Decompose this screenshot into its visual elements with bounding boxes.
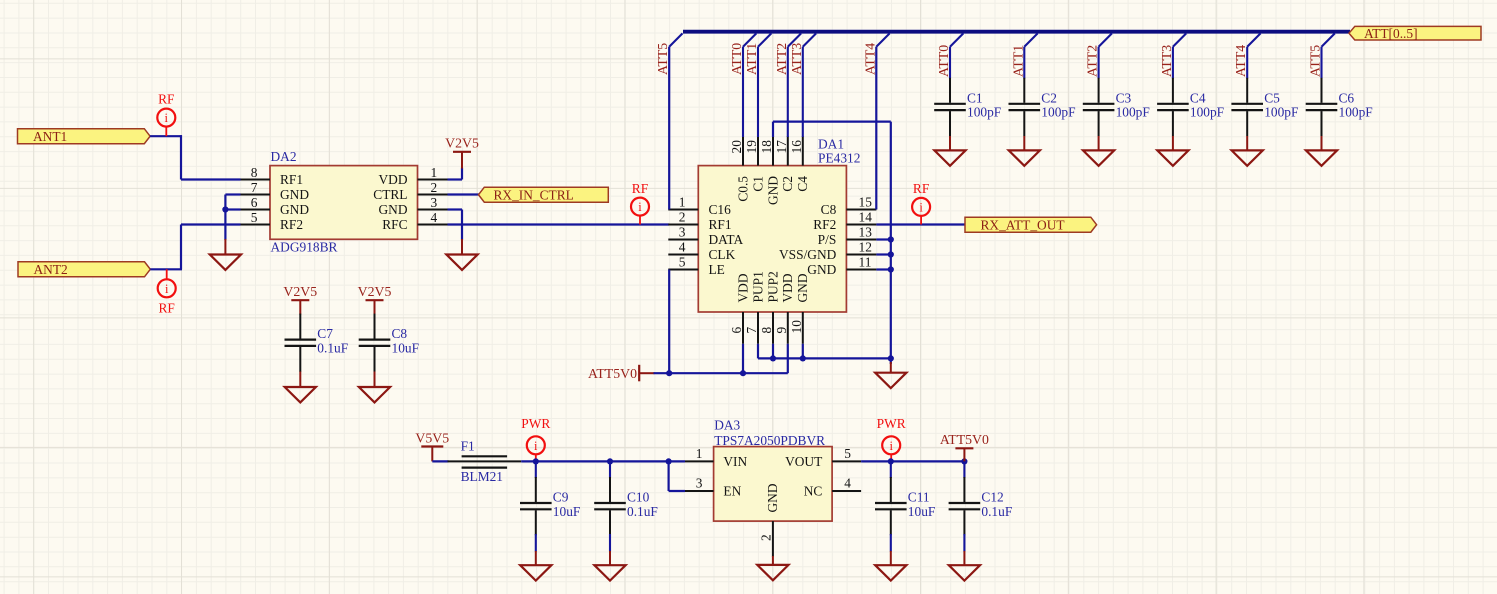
DA1 pin 2 RF1 [668, 224, 698, 226]
power symbol V5V5 (V5V5) [415, 430, 449, 461]
capacitor C11 10uF [875, 477, 935, 535]
DA1 pin 13 P/S [846, 239, 876, 241]
svg-text:C12: C12 [981, 490, 1003, 505]
capacitor C8 10uF [359, 314, 419, 372]
port ANT1 (ANT1) [18, 129, 151, 144]
svg-text:BLM21: BLM21 [461, 469, 503, 484]
bus entry ATT3 at x=1172.9 [1173, 33, 1186, 46]
power symbol V2V5 (DA2 VDD) [445, 136, 479, 169]
svg-text:C1: C1 [750, 176, 765, 192]
ground GND C2 [1009, 150, 1040, 165]
svg-text:i: i [534, 439, 538, 453]
svg-text:PE4312: PE4312 [818, 151, 860, 166]
wire DA2 CTRL to RX_IN_CTRL [448, 193, 480, 195]
svg-text:2: 2 [431, 180, 438, 195]
svg-text:4: 4 [431, 210, 438, 225]
DA1 pin 16 C4 [802, 136, 804, 165]
DA1 pin 19 C1 [757, 136, 759, 165]
svg-text:16: 16 [789, 140, 804, 154]
DA1 pin 14 RF2 [846, 224, 876, 226]
ground GND C12 [949, 565, 980, 580]
svg-text:DATA: DATA [709, 232, 744, 247]
svg-text:VIN: VIN [723, 454, 747, 469]
svg-text:7: 7 [744, 327, 759, 334]
DA3 pin 1 VIN [685, 460, 714, 462]
junction C9 [533, 458, 539, 464]
bus entry ATT2 at x=787.8 [788, 33, 801, 46]
wire DA2 GND pin3 to ground [448, 208, 463, 210]
svg-text:100pF: 100pF [1041, 105, 1075, 120]
svg-text:EN: EN [723, 484, 741, 499]
junction C10 [607, 458, 613, 464]
port RX_ATT_OUT (RX_ATT_OUT) [965, 217, 1097, 232]
svg-text:2: 2 [679, 210, 686, 225]
junction pin10 [800, 355, 806, 361]
svg-text:5: 5 [679, 255, 686, 270]
bus entry ATT1 at x=1024.3 [1024, 33, 1037, 46]
svg-text:ATT4: ATT4 [1233, 45, 1248, 77]
DA3 pin 2 GND [772, 521, 774, 557]
svg-text:14: 14 [859, 210, 873, 225]
svg-text:ATT3: ATT3 [1159, 45, 1174, 77]
capacitor C10 0.1uF [594, 477, 658, 535]
svg-text:V2V5: V2V5 [358, 284, 392, 299]
svg-text:ATT5V0: ATT5V0 [588, 366, 637, 381]
svg-text:ATT5: ATT5 [1308, 45, 1323, 77]
probe RF (probe RF DA1 in) [631, 181, 649, 225]
svg-text:i: i [165, 282, 169, 296]
wire ATT1→pin19 [757, 47, 759, 137]
wire ANT1 to DA2.RF1 [150, 135, 182, 137]
svg-text:ATT0: ATT0 [936, 45, 951, 77]
svg-text:100pF: 100pF [1264, 105, 1298, 120]
IC DA2 ADG918BR [241, 149, 448, 254]
wire C7 to ground [299, 372, 301, 389]
svg-text:i: i [638, 200, 642, 214]
svg-text:5: 5 [251, 210, 258, 225]
DA1 pin 9 VDD [787, 312, 789, 344]
svg-text:1: 1 [679, 195, 686, 210]
DA3 pin 4 NC [832, 490, 861, 492]
port RX_IN_CTRL (RX_IN_CTRL) [479, 187, 609, 202]
svg-text:20: 20 [729, 140, 744, 154]
svg-text:8: 8 [251, 165, 258, 180]
svg-text:NC: NC [804, 484, 823, 499]
DA2 pin 4 RFC [418, 224, 448, 226]
svg-text:RX_IN_CTRL: RX_IN_CTRL [494, 187, 574, 202]
svg-text:GND: GND [807, 262, 836, 277]
ground GND C1 [934, 150, 965, 165]
wire EN branch [667, 461, 669, 491]
svg-text:C6: C6 [1339, 90, 1355, 105]
port ANT2 (ANT2) [18, 262, 150, 277]
DA2 pin 2 CTRL [418, 194, 448, 196]
junction EN branch [666, 458, 672, 464]
DA2 pin 3 GND [418, 209, 448, 211]
svg-text:100pF: 100pF [1339, 105, 1373, 120]
capacitor C7 0.1uF [285, 314, 349, 372]
ferrite bead F1 BLM21 [448, 439, 522, 484]
svg-text:10: 10 [789, 320, 804, 334]
bus entry ATT4 at x=1247.2 [1247, 33, 1260, 46]
svg-text:10uF: 10uF [908, 504, 936, 519]
svg-text:VDD: VDD [735, 273, 750, 302]
svg-text:P/S: P/S [818, 232, 837, 247]
ground GND C7 [285, 387, 316, 402]
wire ATT3→pin16 [802, 47, 804, 137]
svg-text:1: 1 [696, 446, 703, 461]
bus entry ATT1 at x=758 [758, 33, 771, 46]
svg-text:ATT3: ATT3 [789, 43, 804, 75]
ground GND C6 [1306, 150, 1337, 165]
junction pin12 [888, 251, 894, 257]
svg-text:RX_ATT_OUT: RX_ATT_OUT [981, 217, 1065, 232]
wire DA2.RFC to DA1.RF1 [448, 223, 670, 225]
svg-text:C11: C11 [908, 490, 930, 505]
ground GND C11 [875, 565, 906, 580]
wire ATT2→pin17 [787, 47, 789, 137]
svg-text:19: 19 [744, 140, 759, 154]
svg-text:ATT4: ATT4 [862, 43, 877, 75]
capacitor C12 0.1uF [949, 477, 1013, 535]
svg-text:F1: F1 [461, 439, 475, 454]
svg-text:C1: C1 [967, 90, 983, 105]
DA1 pin 12 VSS/GND [846, 254, 876, 256]
svg-text:C0.5: C0.5 [735, 176, 750, 202]
svg-text:3: 3 [696, 475, 703, 490]
svg-text:GND: GND [795, 273, 810, 302]
DA2 pin 6 GND [241, 209, 271, 211]
wire ATT4 bus to DA1 pin15 [875, 47, 877, 210]
DA1 pin 11 GND [846, 269, 876, 271]
ground GND C9 [520, 565, 551, 580]
svg-text:LE: LE [709, 262, 725, 277]
svg-text:1: 1 [431, 165, 438, 180]
svg-text:6: 6 [729, 327, 744, 334]
svg-text:RF1: RF1 [280, 172, 303, 187]
svg-text:8: 8 [759, 327, 774, 334]
svg-text:C2: C2 [1041, 90, 1057, 105]
svg-text:ADG918BR: ADG918BR [271, 239, 338, 254]
wire DA2 VDD to V2V5 [448, 178, 463, 180]
svg-text:GND: GND [765, 176, 780, 205]
svg-text:18: 18 [759, 140, 774, 154]
ground GND C3 [1083, 150, 1114, 165]
port ATT[0..5] (port ATT[0..5]) [1349, 26, 1481, 41]
svg-text:C9: C9 [553, 490, 569, 505]
ground GND DA1 [875, 373, 906, 388]
bus entry ATT3 at x=802.8 [803, 33, 816, 46]
svg-text:3: 3 [431, 195, 438, 210]
wire C8 to ground [374, 372, 376, 389]
DA1 pin 4 CLK [668, 254, 698, 256]
DA1 pin 15 C8 [846, 209, 876, 211]
ground GND C4 [1157, 150, 1188, 165]
DA3 pin 3 EN [685, 490, 714, 492]
svg-text:ATT[0..5]: ATT[0..5] [1364, 26, 1418, 41]
wire C3 to ground [1098, 136, 1100, 151]
power symbol V2V5 (C8) [358, 284, 392, 315]
DA2 pin 5 RF2 [241, 224, 271, 226]
svg-text:4: 4 [844, 475, 851, 490]
svg-text:GND: GND [765, 483, 780, 512]
svg-text:DA3: DA3 [714, 418, 740, 433]
svg-text:ATT0: ATT0 [729, 43, 744, 75]
junction pin6 VDD [740, 370, 746, 376]
svg-text:GND: GND [280, 187, 309, 202]
svg-text:PUP1: PUP1 [750, 271, 765, 302]
bus entry ATT5 at x=669.2 [669, 33, 682, 46]
wire to C12 [963, 461, 965, 478]
junction DA2 pin6 [222, 206, 228, 212]
probe RF (probe RF out) [912, 181, 930, 225]
junction pin8 [770, 355, 776, 361]
wire F1 to DA3.VIN [521, 460, 685, 462]
wire ATT5 bus to DA1 pin1 [668, 47, 670, 210]
svg-text:C5: C5 [1264, 90, 1280, 105]
bus ATT[0..5] [683, 30, 1350, 34]
wire DA1.RF2 to RX_ATT_OUT [876, 223, 965, 225]
svg-text:0.1uF: 0.1uF [981, 504, 1012, 519]
svg-text:5: 5 [844, 446, 851, 461]
svg-text:RF: RF [632, 181, 648, 196]
svg-text:ATT2: ATT2 [1085, 45, 1100, 77]
wire DA1 pin18 GND to right rail [772, 122, 774, 137]
svg-text:4: 4 [679, 240, 686, 255]
junction pin11 [888, 266, 894, 272]
ground GND DA2 left [210, 255, 241, 270]
svg-text:PWR: PWR [877, 416, 906, 431]
svg-text:PWR: PWR [521, 416, 550, 431]
svg-text:i: i [889, 439, 893, 453]
probe RF (probe RF ANT1) [157, 92, 175, 137]
wire C2 to ground [1023, 136, 1025, 151]
wire C6 to ground [1321, 136, 1323, 151]
IC DA1 PE4312 [668, 136, 876, 344]
svg-text:RF2: RF2 [813, 217, 836, 232]
DA1 pin 1 C16 [668, 209, 698, 211]
power symbol ATT5V0 (DA1) [588, 365, 655, 382]
capacitor C4 100pF [1157, 78, 1224, 136]
wire ATT0 to C1 [949, 47, 951, 79]
svg-text:6: 6 [251, 195, 258, 210]
DA3 pin 5 VOUT [832, 460, 861, 462]
svg-text:ATT2: ATT2 [774, 43, 789, 75]
svg-text:RF: RF [158, 92, 174, 107]
bus entry ATT4 at x=876.3 [876, 33, 889, 46]
probe PWR (probe PWR in) [521, 416, 550, 461]
svg-text:3: 3 [679, 225, 686, 240]
svg-text:RF2: RF2 [280, 217, 303, 232]
svg-text:V2V5: V2V5 [283, 284, 317, 299]
svg-text:0.1uF: 0.1uF [317, 340, 348, 355]
svg-text:ANT2: ANT2 [34, 262, 68, 277]
DA1 pin 3 DATA [668, 239, 698, 241]
ground GND C8 [359, 387, 390, 402]
svg-text:100pF: 100pF [1190, 105, 1224, 120]
svg-text:ATT5: ATT5 [655, 43, 670, 75]
wire ATT4 to C5 [1246, 47, 1248, 79]
svg-text:12: 12 [859, 240, 872, 255]
wire to C9 [535, 461, 537, 478]
svg-text:VOUT: VOUT [785, 454, 822, 469]
svg-text:VSS/GND: VSS/GND [779, 247, 837, 262]
wire to C10 [609, 461, 611, 478]
ground GND C5 [1232, 150, 1263, 165]
svg-text:10uF: 10uF [553, 504, 581, 519]
svg-text:CLK: CLK [709, 247, 736, 262]
bus entry ATT0 at x=743 [743, 33, 756, 46]
junction LE wire [666, 370, 672, 376]
wire C4 to ground [1172, 136, 1174, 151]
power symbol V2V5 (C7) [283, 284, 317, 315]
svg-text:C2: C2 [780, 176, 795, 192]
svg-text:C16: C16 [709, 202, 732, 217]
capacitor C3 100pF [1083, 78, 1150, 136]
svg-text:100pF: 100pF [1116, 105, 1150, 120]
wire C5 to ground [1246, 136, 1248, 151]
DA1 pin 8 PUP2 [772, 312, 774, 344]
wire DA3.VOUT to ATT5V0 [861, 460, 964, 462]
svg-text:C7: C7 [317, 326, 333, 341]
ground GND DA3 [757, 565, 788, 580]
DA2 pin 8 RF1 [241, 179, 271, 181]
svg-text:RF1: RF1 [709, 217, 732, 232]
svg-text:13: 13 [859, 225, 873, 240]
wire DA2 GND pins 7,6 to ground [225, 193, 240, 195]
svg-text:9: 9 [774, 327, 789, 334]
svg-text:11: 11 [859, 255, 872, 270]
svg-text:GND: GND [378, 202, 407, 217]
DA1 pin 7 PUP1 [757, 312, 759, 344]
svg-text:C3: C3 [1116, 90, 1132, 105]
bus entry ATT5 at x=1321.5 [1322, 33, 1335, 46]
svg-text:C10: C10 [627, 490, 650, 505]
svg-text:C4: C4 [795, 176, 810, 192]
ground GND DA2 right [446, 255, 477, 270]
wire ATT0→pin20 [742, 47, 744, 137]
power symbol ATT5V0 (output rail) [940, 432, 989, 461]
svg-text:ATT1: ATT1 [744, 43, 759, 75]
junction ground rail [888, 355, 894, 361]
svg-text:i: i [165, 111, 169, 125]
bus entry ATT0 at x=950 [950, 33, 963, 46]
svg-text:VDD: VDD [378, 172, 407, 187]
junction C12/ATT5V0 [961, 458, 967, 464]
svg-text:7: 7 [251, 180, 258, 195]
svg-text:ATT1: ATT1 [1010, 45, 1025, 77]
svg-text:i: i [919, 201, 923, 215]
svg-text:DA1: DA1 [818, 137, 844, 152]
DA2 pin 1 VDD [418, 179, 448, 181]
wire ATT1 to C2 [1023, 47, 1025, 79]
capacitor C5 100pF [1231, 78, 1298, 136]
svg-text:VDD: VDD [780, 273, 795, 302]
svg-text:0.1uF: 0.1uF [627, 504, 658, 519]
svg-text:PUP2: PUP2 [765, 271, 780, 302]
svg-text:RF: RF [159, 301, 175, 316]
DA1 pin 18 GND [772, 136, 774, 165]
svg-text:V5V5: V5V5 [415, 430, 449, 445]
wire to C11 [890, 461, 892, 478]
svg-text:10uF: 10uF [392, 340, 420, 355]
DA1 pin 17 C2 [787, 136, 789, 165]
wire ATT2 to C3 [1098, 47, 1100, 79]
junction pin13 [888, 236, 894, 242]
wire ATT5 to C6 [1320, 47, 1322, 79]
DA1 pin 20 C0.5 [742, 136, 744, 165]
wire ATT3 to C4 [1172, 47, 1174, 79]
svg-text:ANT1: ANT1 [33, 129, 67, 144]
svg-text:2: 2 [759, 534, 774, 541]
svg-text:TPS7A2050PDBVR: TPS7A2050PDBVR [714, 433, 825, 448]
junction C11 [888, 458, 894, 464]
wire ATT5V0 to DA1 VDD pins [654, 372, 788, 374]
svg-text:ATT5V0: ATT5V0 [940, 432, 989, 447]
IC DA3 TPS7A2050PDBVR [685, 418, 861, 557]
svg-text:GND: GND [280, 202, 309, 217]
DA1 pin 10 GND [802, 312, 804, 344]
capacitor C1 100pF [934, 78, 1001, 136]
ground GND C10 [594, 565, 625, 580]
svg-text:17: 17 [774, 140, 789, 154]
wire DA1 pins 7,8,10 to ground rail [757, 344, 759, 359]
svg-text:DA2: DA2 [271, 149, 297, 164]
DA1 pin 6 VDD [742, 312, 744, 344]
svg-text:C4: C4 [1190, 90, 1206, 105]
capacitor C9 10uF [520, 477, 580, 535]
svg-text:100pF: 100pF [967, 105, 1001, 120]
DA1 pin 5 LE [668, 269, 698, 271]
svg-text:CTRL: CTRL [373, 187, 407, 202]
capacitor C2 100pF [1009, 78, 1076, 136]
capacitor C6 100pF [1306, 78, 1373, 136]
svg-text:C8: C8 [392, 326, 408, 341]
svg-text:RF: RF [913, 181, 929, 196]
probe PWR (probe PWR out) [877, 416, 906, 462]
wire C1 to ground [949, 136, 951, 151]
svg-text:RFC: RFC [382, 217, 407, 232]
DA2 pin 7 GND [241, 194, 271, 196]
probe RF (probe RF ANT2) [158, 269, 176, 315]
svg-text:C8: C8 [821, 202, 837, 217]
svg-text:15: 15 [859, 195, 873, 210]
wire V5V5 to F1 [432, 460, 448, 462]
bus entry ATT2 at x=1098.6 [1099, 33, 1112, 46]
wire DA1 pins 13,12,11 stubs [876, 238, 890, 240]
svg-text:V2V5: V2V5 [445, 136, 479, 151]
wire ANT2 to DA2.RF2 [150, 268, 182, 270]
